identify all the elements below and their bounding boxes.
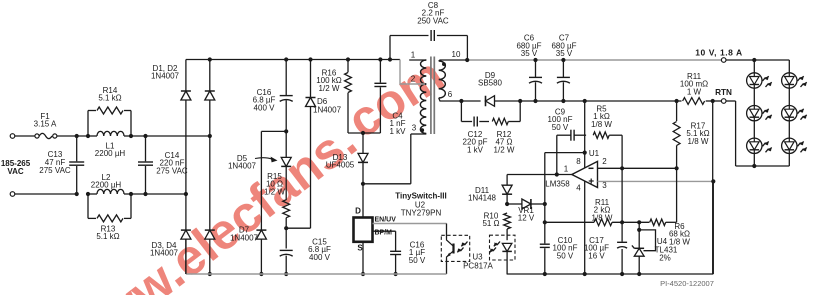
svg-text:2: 2 <box>411 75 416 84</box>
capacitor C10 100 nF 50 V <box>544 153 546 244</box>
svg-text:35 V: 35 V <box>556 49 573 58</box>
reference row wire <box>545 221 594 223</box>
svg-text:275 VAC: 275 VAC <box>156 166 188 175</box>
secondary ground rail <box>507 273 714 275</box>
transformer pin 10 polarity dot <box>442 62 446 66</box>
svg-text:TNY279PN: TNY279PN <box>401 209 442 218</box>
arrow from D5 label to diode <box>255 158 273 160</box>
svg-text:SB580: SB580 <box>478 79 503 88</box>
zener VR1 12 V <box>505 202 509 206</box>
secondary return wire <box>520 100 676 102</box>
node R15/C15/D6 <box>284 226 288 230</box>
svg-text:2200 µH: 2200 µH <box>95 149 126 158</box>
capacitor C6 680 uF 35 V <box>533 58 537 62</box>
diode D2 1N4007 (bridge) <box>208 57 212 61</box>
resistor R11 2 k-ohm 1/8 W <box>594 219 612 226</box>
svg-text:RTN: RTN <box>715 88 732 97</box>
svg-text:50 V: 50 V <box>409 256 426 265</box>
svg-text:BP/M: BP/M <box>375 229 393 236</box>
svg-text:5.1 kΩ: 5.1 kΩ <box>98 94 121 103</box>
svg-text:1N4007: 1N4007 <box>313 105 342 114</box>
svg-text:250 VAC: 250 VAC <box>417 16 449 25</box>
wire pin2 node down to reference node <box>621 168 623 222</box>
capacitor C4 1 nF 1 kV <box>378 57 382 61</box>
svg-text:51 Ω: 51 Ω <box>482 219 499 228</box>
capacitor C16 6.8 uF 400 V <box>284 57 288 61</box>
svg-text:1/8 W: 1/8 W <box>591 120 612 129</box>
svg-text:U1: U1 <box>589 149 600 158</box>
svg-text:35 V: 35 V <box>521 49 538 58</box>
U1 pin 2 wire (inverting) <box>598 167 677 169</box>
svg-text:1/8 W: 1/8 W <box>669 237 690 246</box>
svg-text:3: 3 <box>602 181 607 190</box>
svg-text:3.15 A: 3.15 A <box>34 120 57 129</box>
svg-text:8: 8 <box>576 157 581 166</box>
svg-text:4: 4 <box>576 184 581 193</box>
resistor R13 5.1 k-ohm (parallel with L2) <box>87 194 89 218</box>
svg-text:1/2 W: 1/2 W <box>264 187 285 196</box>
optocoupler U3 PC817A transistor side <box>441 235 469 261</box>
diode D1 1N4007 (bridge) <box>185 60 187 91</box>
svg-text:1: 1 <box>411 51 416 60</box>
U2 BP/M pin wire and C16 1 uF 50 V <box>373 230 396 232</box>
LED string 2 (right) <box>788 60 790 73</box>
U1 pin 8 supply wire <box>583 99 587 103</box>
svg-text:UF4005: UF4005 <box>326 161 355 170</box>
U1 pin 4 wire to ground <box>584 181 586 274</box>
resistor R6 68 k-ohm 1/8 W <box>650 219 666 225</box>
feedback resistor R5 1 k-ohm 1/8 W <box>593 132 609 138</box>
svg-text:1/8 W: 1/8 W <box>592 213 613 222</box>
node A wire to D7 <box>284 129 288 133</box>
transformer pin 3 polarity dot <box>420 128 424 132</box>
transformer pin 10 wire <box>439 60 468 61</box>
TL431 reference loop <box>639 230 655 251</box>
wire clamp bottom row <box>348 132 380 134</box>
svg-text:PC817A: PC817A <box>463 262 493 271</box>
svg-text:1 W: 1 W <box>687 87 702 96</box>
op-amp U1 LM358 <box>572 161 598 187</box>
resistor R10 51 ohm <box>504 213 511 229</box>
inductor L2 2200 uH <box>88 193 97 195</box>
svg-text:1 kV: 1 kV <box>467 145 484 154</box>
svg-text:5.1 kΩ: 5.1 kΩ <box>96 232 119 241</box>
watermark www.elecfans.com <box>56 112 367 295</box>
svg-text:1N4007: 1N4007 <box>151 72 180 81</box>
feedback capacitor C9 100 nF 50 V <box>556 135 558 174</box>
svg-text:6: 6 <box>448 90 453 99</box>
svg-text:1N4007: 1N4007 <box>150 249 179 258</box>
capacitor C13 47 nF 275 VAC <box>75 134 79 138</box>
capacitor C14 220 nF 275 VAC <box>143 134 147 138</box>
transformer secondary winding (pins 10-6) <box>439 61 446 98</box>
wire fuse to C13 <box>57 135 88 137</box>
svg-text:1N4148: 1N4148 <box>468 194 497 203</box>
svg-text:S: S <box>357 244 363 253</box>
svg-text:10 V, 1.8 A: 10 V, 1.8 A <box>695 47 742 57</box>
optocoupler U3 PC817A LED side <box>490 235 516 260</box>
transformer pin 1 stub <box>409 59 426 61</box>
inductor L1 2200 uH <box>88 135 97 137</box>
diode D7 1N4007 <box>256 230 266 239</box>
return terminal RTN <box>711 99 715 103</box>
diode D13 UF4005 <box>361 131 365 135</box>
svg-text:275 VAC: 275 VAC <box>39 166 71 175</box>
capacitor C7 680 uF 35 V <box>561 58 565 62</box>
svg-text:1 kV: 1 kV <box>389 127 406 136</box>
fuse F1 3.15 A <box>35 134 39 138</box>
svg-text:50 V: 50 V <box>557 251 574 260</box>
output terminal 10 V 1.8 A <box>721 58 726 63</box>
wire node to L1 block <box>86 134 90 138</box>
svg-text:1/8 W: 1/8 W <box>688 137 709 146</box>
transformer core <box>430 57 432 135</box>
transformer pin 6 wire <box>439 98 462 101</box>
diode D9 SB580 <box>461 100 480 102</box>
svg-text:U3: U3 <box>472 253 483 262</box>
transformer primary winding (pins 1-2-3) <box>421 60 427 84</box>
U1 pin 3 wire (non-inverting, gray) <box>598 180 714 182</box>
svg-text:2%: 2% <box>659 254 671 263</box>
svg-text:50 V: 50 V <box>552 123 569 132</box>
svg-text:2: 2 <box>602 157 607 166</box>
svg-text:16 V: 16 V <box>588 251 605 260</box>
diode D3 1N4007 (bridge) <box>184 192 188 196</box>
primary ground rail (gray) <box>186 273 447 275</box>
snubber C12 220 pF + R12 47 ohm across D9 <box>459 99 463 103</box>
resistor R16 100 k-ohm 1/2 W <box>346 57 350 61</box>
diode D11 1N4148 <box>506 175 508 186</box>
svg-text:D: D <box>355 207 361 216</box>
input terminal top (line) <box>10 134 15 139</box>
svg-text:TinySwitch-III: TinySwitch-III <box>395 191 446 200</box>
svg-text:LM358: LM358 <box>545 180 570 189</box>
resistor R14 5.1 k-ohm (parallel with L1) <box>87 111 89 137</box>
resistor R11 100 m-ohm 1 W (current sense) <box>675 99 679 103</box>
svg-text:1: 1 <box>564 165 569 174</box>
IC U2 TNY279PN TinySwitch-III <box>362 184 364 218</box>
shunt reference U4 TL431 2% <box>637 220 641 224</box>
U2 EN/UV pin wire (gray) <box>373 223 447 225</box>
diode D5 1N4007 <box>285 131 287 157</box>
wire L1 to C14 and bridge <box>129 134 133 138</box>
input terminal bottom (neutral) <box>10 192 15 197</box>
svg-text:EN/UV: EN/UV <box>375 216 397 223</box>
svg-text:1N4007: 1N4007 <box>230 233 259 242</box>
svg-text:1/2 W: 1/2 W <box>494 145 515 154</box>
resistor R17 5.1 k-ohm 1/8 W <box>676 101 678 121</box>
svg-text:400 V: 400 V <box>254 103 276 112</box>
transformer pin 3 wire <box>411 133 427 135</box>
resistor R15 10 ohm 1/2 W <box>283 200 290 218</box>
wire RTN to LED string bottom <box>735 101 737 166</box>
LED string 1 (left) <box>752 58 756 62</box>
capacitor C8 2.2 nF 250 VAC <box>388 57 392 61</box>
wire RTN node down to feedback <box>712 101 714 274</box>
capacitor C17 100 uF 16 V <box>620 220 624 224</box>
wire primary DC+ rail <box>186 59 400 61</box>
svg-text:3: 3 <box>412 124 417 133</box>
svg-text:1N4007: 1N4007 <box>228 162 257 171</box>
capacitor C15 6.8 uF 400 V <box>280 249 293 251</box>
U1 output pin 1 wire <box>507 174 572 176</box>
diode D4 1N4007 (bridge) <box>208 134 212 138</box>
svg-text:PI-4520-122007: PI-4520-122007 <box>660 279 714 288</box>
diode D6 1N4007 <box>308 57 312 61</box>
gray +10V output rail <box>467 59 721 61</box>
node D13 anode / drain / pin3 <box>361 182 365 186</box>
svg-text:VAC: VAC <box>7 167 24 176</box>
svg-text:2200 µH: 2200 µH <box>91 181 122 190</box>
svg-text:1/2 W: 1/2 W <box>319 84 340 93</box>
svg-text:10: 10 <box>452 50 461 59</box>
svg-text:400 V: 400 V <box>309 253 331 262</box>
transformer pin 2 wire (gray jog from rail) <box>400 60 425 85</box>
svg-text:12 V: 12 V <box>518 214 535 223</box>
